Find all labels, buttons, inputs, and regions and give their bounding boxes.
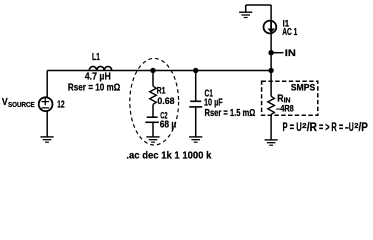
svg-text:R =: R = [331,122,343,134]
ground vsource [40,137,53,142]
svg-text:12: 12 [57,99,65,110]
dashed ellipse tank [130,58,179,145]
svg-text:= >: = > [319,122,330,134]
wire C1 to ground [195,107,197,137]
svg-text:68 µ: 68 µ [160,120,177,131]
svg-text:–4R8: –4R8 [276,103,294,113]
wire IN stub [271,52,283,54]
SMPS dashed box [262,81,318,115]
svg-text:R1: R1 [157,86,166,96]
wire top ground horizontal [246,4,271,6]
text power formula [283,121,369,134]
svg-text:Rser = 1.5 mΩ: Rser = 1.5 mΩ [205,108,256,119]
capacitor C2 [145,117,159,122]
svg-text:SMPS: SMPS [291,83,315,93]
current source I1 [264,21,277,34]
inductor L1 [89,66,112,70]
svg-text:/R: /R [307,122,318,134]
ground top right [239,12,252,17]
node dot C1 branch [193,68,198,73]
voltage source V_SOURCE [39,97,53,111]
svg-text:4.7 µH: 4.7 µH [85,72,111,83]
wire C1 top [195,71,197,102]
svg-text:–U: –U [345,122,354,134]
ground C2 [146,137,159,142]
node dot IN [268,50,273,55]
wire I1 to bus [270,33,272,70]
wire main bus [47,70,271,72]
wire I1 top [270,5,272,20]
svg-text:0.68: 0.68 [157,96,174,107]
svg-text:SOURCE: SOURCE [8,102,35,109]
wire top ground stub [245,5,247,12]
wire RIN to ground [270,115,272,140]
svg-text:/P: /P [359,122,369,134]
ground RIN [265,140,278,145]
resistor RIN [268,96,275,114]
wire vsource top [46,71,48,98]
wire vsource bottom [46,111,48,136]
label V_SOURCE [2,97,35,109]
svg-text:10 µF: 10 µF [204,98,223,109]
capacitor C1 [189,101,202,107]
ground C1 [189,137,202,142]
svg-text:AC 1: AC 1 [282,27,298,38]
wire C2 to ground [152,122,154,136]
svg-text:V: V [2,97,8,108]
svg-text:P = U: P = U [283,122,302,134]
node dot R1 branch [150,68,155,73]
label RIN [277,94,290,105]
svg-text:L1: L1 [92,52,100,63]
svg-text:Rser = 10 mΩ: Rser = 10 mΩ [68,82,120,93]
wire RIN top [270,71,272,97]
wire R1 top [152,71,154,87]
node dot bus right [268,68,273,73]
svg-text:IN: IN [285,48,296,58]
wire R1 to C2 [152,104,154,116]
resistor R1 [150,86,157,104]
svg-text:.ac dec 1k 1 1000 k: .ac dec 1k 1 1000 k [126,151,211,162]
